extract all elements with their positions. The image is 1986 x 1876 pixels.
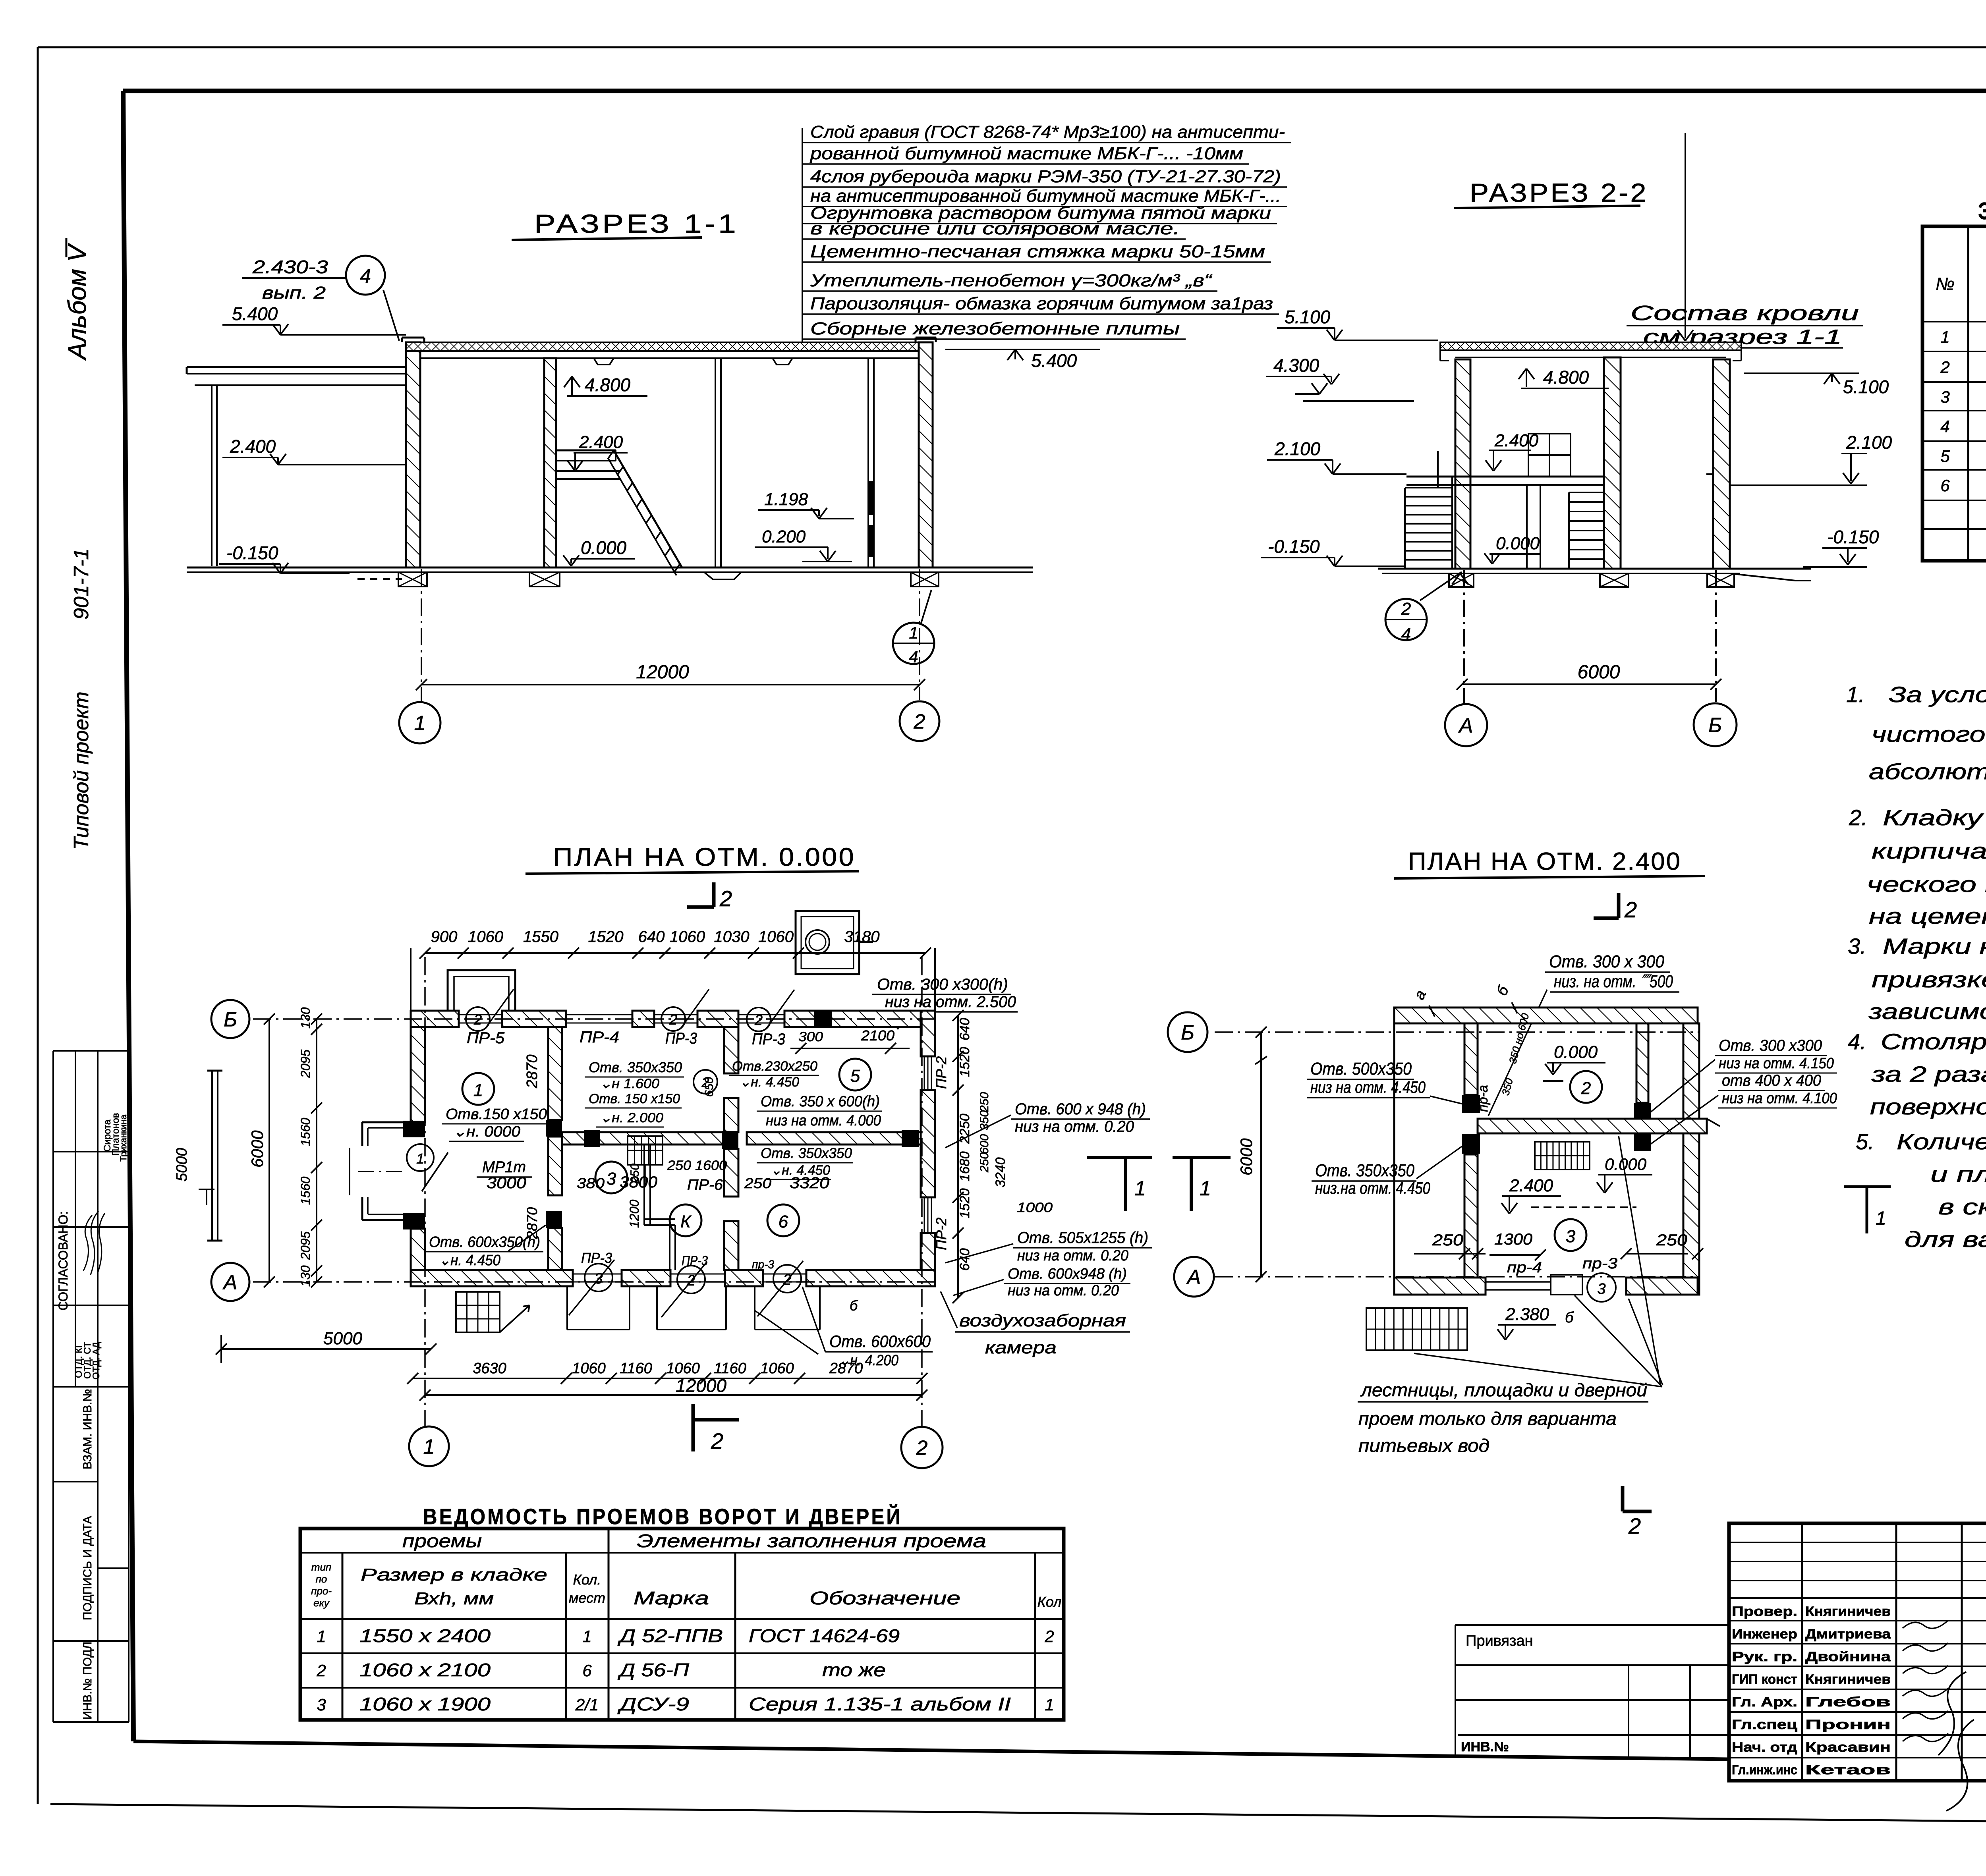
svg-text:4.800: 4.800 [1543, 367, 1589, 388]
svg-text:2: 2 [914, 710, 925, 733]
bottom dim chain 1 [413, 1378, 922, 1379]
left outdoor stair [1404, 488, 1406, 569]
canopy slab [187, 366, 406, 368]
svg-text:Типовой проект: Типовой проект [70, 691, 93, 850]
plan 0.000 section cut 2 bottom [692, 1404, 695, 1451]
vedomost grid [300, 1529, 1064, 1720]
svg-text:4.: 4. [1848, 1029, 1866, 1054]
svg-text:1060 х 1900: 1060 х 1900 [359, 1694, 491, 1714]
svg-text:Кол: Кол [1037, 1594, 1062, 1610]
svg-text:2: 2 [1940, 358, 1949, 376]
left margin approval table [53, 1050, 129, 1052]
svg-text:⌄н. 2.000: ⌄н. 2.000 [600, 1110, 663, 1125]
svg-text:по: по [316, 1573, 327, 1585]
svg-text:6: 6 [582, 1661, 592, 1680]
svg-text:5.100: 5.100 [1843, 376, 1889, 397]
svg-text:1: 1 [416, 1150, 424, 1167]
svg-text:2: 2 [1401, 599, 1411, 619]
door stoops bottom [566, 1286, 568, 1330]
svg-text:МР1т: МР1т [482, 1158, 526, 1176]
roofing layers note leader [802, 128, 803, 342]
axis circle 1 section 1-1 [399, 702, 440, 743]
svg-text:вып. 2: вып. 2 [262, 283, 326, 303]
svg-text:4слоя рубероида марки РЭМ-350: 4слоя рубероида марки РЭМ-350 (ТУ-21-27.… [810, 167, 1281, 186]
svg-text:зависимости от района строите: зависимости от района строительства. [1868, 999, 1986, 1024]
svg-text:ПР-3: ПР-3 [665, 1030, 697, 1047]
svg-text:Утеплитель-пенобетон γ=300кг/м: Утеплитель-пенобетон γ=300кг/м³ „в“ [810, 271, 1213, 290]
svg-text:Княгиничев: Княгиничев [1805, 1672, 1891, 1687]
section 2-2 right wall [1713, 359, 1730, 569]
section 1-1 partition wall [715, 358, 716, 567]
svg-text:5000: 5000 [174, 1148, 190, 1181]
svg-text:6000: 6000 [248, 1130, 267, 1168]
cellar stair window [456, 1292, 500, 1332]
svg-text:К: К [680, 1212, 692, 1231]
svg-text:130: 130 [298, 1007, 313, 1029]
section 1-1 right wall [919, 342, 933, 567]
foundations section 2-2 [1449, 573, 1474, 587]
svg-text:для варианта сточных вод.: для варианта сточных вод. [1905, 1227, 1986, 1252]
external stair plan 2.400 [1366, 1308, 1467, 1350]
svg-text:1: 1 [1876, 1208, 1886, 1229]
svg-text:⌄н. 0000: ⌄н. 0000 [453, 1123, 520, 1140]
svg-text:ПР-3: ПР-3 [581, 1250, 612, 1266]
svg-text:2: 2 [916, 1437, 928, 1460]
svg-text:ГИП конст: ГИП конст [1732, 1672, 1797, 1687]
svg-text:Красавин: Красавин [1805, 1740, 1891, 1755]
svg-text:лестницы, площадки и дверной: лестницы, площадки и дверной [1360, 1380, 1647, 1400]
svg-text:2.100: 2.100 [1846, 432, 1892, 453]
svg-text:ПЛАН НА ОТМ. 2.400: ПЛАН НА ОТМ. 2.400 [1408, 848, 1681, 875]
plan 2.400 interior wall [1464, 1023, 1478, 1095]
svg-text:250: 250 [1656, 1231, 1687, 1249]
svg-text:4: 4 [909, 647, 918, 666]
svg-text:901-7-1: 901-7-1 [70, 548, 93, 620]
stair symbol room 3 [628, 1136, 663, 1165]
entrance porch [362, 1121, 411, 1123]
section marks 1-1 between plans [1087, 1156, 1152, 1159]
svg-text:Отв. 350x350: Отв. 350x350 [1315, 1161, 1414, 1180]
svg-text:Д 52-ППВ: Д 52-ППВ [617, 1625, 723, 1646]
svg-text:ПР-2: ПР-2 [933, 1056, 949, 1089]
svg-text:2.400: 2.400 [579, 432, 623, 452]
svg-text:1: 1 [1134, 1177, 1146, 1200]
svg-text:1560: 1560 [298, 1177, 313, 1205]
svg-text:4.800: 4.800 [585, 374, 631, 395]
svg-text:пр-4: пр-4 [1507, 1259, 1542, 1276]
section 1-1 left wall [406, 342, 420, 567]
svg-text:2.400: 2.400 [1509, 1176, 1553, 1195]
svg-text:2.: 2. [1849, 805, 1868, 830]
svg-text:Б: Б [1181, 1021, 1194, 1044]
svg-text:Глебов: Глебов [1805, 1695, 1891, 1710]
svg-text:2100: 2100 [861, 1027, 894, 1044]
svg-text:Цементно-песчаная стяжка марки: Цементно-песчаная стяжка марки 50-15мм [810, 242, 1265, 261]
svg-text:2.400: 2.400 [1494, 431, 1539, 450]
svg-text:1: 1 [1940, 328, 1949, 346]
svg-text:2.430-3: 2.430-3 [252, 257, 328, 277]
stair landing [556, 450, 616, 452]
svg-text:-0.150: -0.150 [226, 542, 278, 563]
detail circle 4 callout [346, 256, 385, 295]
svg-text:Пронин: Пронин [1805, 1717, 1891, 1732]
svg-text:ВЕДОМОСТЬ ПРОЕМОВ ВОРОТ И Д: ВЕДОМОСТЬ ПРОЕМОВ ВОРОТ И ДВЕРЕЙ [423, 1504, 902, 1529]
svg-text:1160: 1160 [714, 1360, 746, 1377]
svg-text:Нач. отд: Нач. отд [1732, 1740, 1797, 1755]
svg-text:1060: 1060 [670, 928, 705, 946]
svg-text:3: 3 [607, 1169, 616, 1189]
svg-text:Сборные железобетонные плиты: Сборные железобетонные плиты [810, 319, 1180, 338]
svg-text:ПОДПИСЬ И ДАТА: ПОДПИСЬ И ДАТА [81, 1516, 94, 1620]
section 2-2 middle wall [1604, 357, 1621, 569]
svg-text:1: 1 [423, 1436, 435, 1459]
svg-text:Размер в кладке: Размер в кладке [361, 1565, 547, 1585]
plan 2.400 top wall [1394, 1007, 1698, 1023]
svg-text:2: 2 [719, 886, 732, 911]
svg-text:Отв. 500x350: Отв. 500x350 [1310, 1059, 1412, 1079]
svg-text:1: 1 [1200, 1177, 1211, 1200]
circle 3 bottom plan 2.400 [1587, 1273, 1616, 1302]
svg-text:ОТД. АД: ОТД. АД [91, 1342, 102, 1380]
svg-text:2870: 2870 [524, 1054, 541, 1089]
svg-text:1.: 1. [1846, 682, 1865, 707]
svg-text:1160: 1160 [620, 1360, 652, 1377]
section 2-2 left wall [1455, 359, 1470, 569]
svg-text:250 1600: 250 1600 [667, 1158, 727, 1173]
svg-text:2.100: 2.100 [1274, 438, 1321, 459]
svg-text:Гл.инж.инс: Гл.инж.инс [1732, 1762, 1797, 1778]
svg-text:за 2 раза по предварительно ог: за 2 раза по предварительно огрунтованно… [1871, 1062, 1986, 1087]
svg-text:650: 650 [703, 1077, 716, 1097]
svg-text:кирпича глиняного обыкновенног: кирпича глиняного обыкновенного пласти- [1872, 838, 1986, 863]
svg-text:низ на отм. 0.20: низ на отм. 0.20 [1008, 1282, 1119, 1299]
svg-text:Отв. 300 x300: Отв. 300 x300 [1719, 1037, 1822, 1054]
svg-text:А: А [1186, 1266, 1201, 1289]
door opening bottom [1551, 1275, 1582, 1295]
svg-text:3: 3 [1940, 388, 1949, 406]
svg-text:250: 250 [1432, 1231, 1463, 1249]
svg-text:Пароизоляция- обмазка горячим: Пароизоляция- обмазка горячим битумом за… [810, 294, 1273, 313]
plan 0.000 top wall [411, 1011, 459, 1027]
svg-text:4: 4 [1940, 417, 1949, 436]
svg-text:1060 х 2100: 1060 х 2100 [359, 1660, 491, 1680]
plan 2.400 section cut 2 bottom [1621, 1486, 1625, 1511]
svg-text:-0.150: -0.150 [1268, 536, 1320, 557]
svg-text:2: 2 [316, 1661, 326, 1680]
vent box [796, 911, 859, 974]
pr-a label [1476, 1085, 1491, 1112]
svg-text:Отв. 350x350: Отв. 350x350 [589, 1059, 682, 1075]
svg-text:1060: 1060 [758, 928, 794, 946]
svg-text:1.198: 1.198 [764, 490, 808, 509]
svg-text:⌄н. 4.450: ⌄н. 4.450 [740, 1075, 799, 1090]
plan 0.000 mid wall [562, 1132, 723, 1145]
svg-text:низ на отм. 4.000: низ на отм. 4.000 [766, 1112, 881, 1129]
svg-text:6000: 6000 [1578, 662, 1620, 683]
axis 1 plan 0.000 [424, 957, 426, 1426]
svg-text:ИНВ.№: ИНВ.№ [1461, 1739, 1509, 1754]
svg-text:3: 3 [1566, 1227, 1576, 1246]
svg-text:Д 56-П: Д 56-П [617, 1660, 690, 1680]
svg-text:1: 1 [317, 1627, 326, 1646]
svg-text:1060: 1060 [666, 1360, 700, 1377]
privyazan block [1455, 1624, 1729, 1626]
svg-text:РАЗРЕЗ 2-2: РАЗРЕЗ 2-2 [1470, 178, 1648, 207]
svg-text:пр-а: пр-а [1476, 1085, 1491, 1112]
svg-text:-0.150: -0.150 [1827, 527, 1879, 547]
svg-text:900: 900 [431, 928, 458, 946]
axis circle A section 2-2 [1445, 704, 1487, 746]
dim 6000 plan 2.400 [1260, 1032, 1262, 1277]
plan 2.400 bottom wall [1394, 1278, 1486, 1295]
svg-text:2870: 2870 [524, 1207, 540, 1239]
svg-text:ческого прессования марки 100: ческого прессования марки 100 (гост 530-… [1867, 872, 1986, 897]
svg-text:ПР-6: ПР-6 [687, 1177, 723, 1193]
svg-text:1560: 1560 [298, 1118, 313, 1146]
svg-text:Отв. 350x350: Отв. 350x350 [761, 1145, 852, 1161]
room circle 6 [767, 1204, 799, 1236]
svg-text:250: 250 [978, 1092, 991, 1112]
svg-text:1060: 1060 [468, 928, 503, 946]
svg-text:№: № [1936, 274, 1955, 294]
svg-text:За условную отметку 0.000 прин: За условную отметку 0.000 принята отметк… [1889, 682, 1986, 707]
svg-text:Отв. 150 x150: Отв. 150 x150 [589, 1091, 680, 1106]
svg-text:в скобках (см.листы АР-1,2) д: в скобках (см.листы АР-1,2) даны [1938, 1194, 1986, 1219]
svg-text:1: 1 [582, 1627, 591, 1646]
svg-text:1520: 1520 [588, 928, 624, 946]
section 1-1 roof slab [406, 342, 933, 351]
svg-text:2250: 2250 [957, 1114, 972, 1144]
svg-text:5: 5 [1940, 447, 1950, 465]
foundations [398, 572, 427, 587]
dim 650 center [703, 1077, 716, 1097]
axis B plan 0.000 [253, 1018, 935, 1020]
small dims at wall [1507, 1012, 1532, 1065]
explication table grid [1922, 226, 1986, 561]
svg-text:2.380: 2.380 [1505, 1305, 1549, 1324]
approval names [102, 1119, 113, 1152]
svg-text:поверхности .: поверхности . [1870, 1094, 1986, 1119]
svg-text:0.000: 0.000 [1554, 1042, 1598, 1062]
plan 0.000 interior wall 1 [548, 1027, 562, 1120]
stair flight [614, 450, 682, 567]
svg-text:низ на отм. 0.20: низ на отм. 0.20 [1017, 1247, 1128, 1264]
svg-text:350: 350 [978, 1110, 991, 1130]
svg-text:на цементном растворе марки 2: на цементном растворе марки 25. [1869, 903, 1986, 928]
left elevation bar plan 0.000 [211, 1071, 213, 1241]
detail circle 2/4 callout [1385, 599, 1427, 640]
svg-text:2: 2 [711, 1428, 723, 1453]
svg-text:тип: тип [311, 1561, 331, 1573]
svg-text:1: 1 [909, 623, 918, 642]
svg-text:0.000: 0.000 [581, 537, 627, 558]
svg-text:2: 2 [1044, 1627, 1054, 1646]
svg-text:5000: 5000 [323, 1329, 362, 1348]
svg-text:низ на отм. 4.450: низ на отм. 4.450 [1310, 1078, 1426, 1096]
svg-text:5: 5 [850, 1066, 860, 1086]
room circle 5 [839, 1059, 871, 1090]
svg-text:2095: 2095 [298, 1050, 313, 1078]
svg-text:Привязан: Привязан [1466, 1633, 1533, 1649]
axis A plan 2.400 [1215, 1276, 1700, 1278]
svg-text:отв 400 x 400: отв 400 x 400 [1722, 1072, 1821, 1089]
svg-text:Обозначение: Обозначение [809, 1588, 960, 1608]
svg-text:Провер.: Провер. [1732, 1604, 1797, 1619]
axis circle B section 2-2 [1694, 703, 1737, 746]
duct wall [867, 358, 869, 567]
room circle K [670, 1204, 701, 1236]
plan 0.000 left wall [411, 1027, 425, 1122]
svg-text:воздухозаборная: воздухозаборная [959, 1311, 1126, 1330]
entrance door leaf [422, 1152, 448, 1191]
ground line section 1-1 [187, 567, 1033, 569]
door frame section 2-2 [1526, 485, 1528, 569]
svg-text:640: 640 [957, 1018, 972, 1040]
svg-text:и площади помещений указанной: и площади помещений указанной [1930, 1162, 1986, 1187]
right inner dim chain [957, 1015, 959, 1298]
svg-text:1550 х 2400: 1550 х 2400 [359, 1625, 491, 1646]
svg-text:Отв. 600x600: Отв. 600x600 [829, 1332, 931, 1351]
right side PR-2 labels [933, 1056, 949, 1089]
svg-text:1200: 1200 [627, 1200, 641, 1228]
approval departments [73, 1343, 84, 1378]
room circle 3 plan 2.400 [1555, 1219, 1586, 1251]
axis 2 plan 0.000 [921, 957, 923, 1426]
svg-text:6: 6 [1940, 476, 1950, 495]
sheet inner frame [123, 89, 1986, 93]
plan 0.000 interior wall 2 [724, 1027, 738, 1073]
interior stair wall [544, 358, 556, 567]
svg-text:Триханкина: Триханкина [118, 1114, 128, 1162]
svg-text:250: 250 [744, 1175, 771, 1191]
svg-text:1550: 1550 [523, 928, 558, 946]
svg-text:3630: 3630 [473, 1360, 506, 1377]
plan 2.400 far right wall [1683, 1023, 1699, 1295]
svg-text:проем только для варианта: проем только для варианта [1358, 1408, 1617, 1429]
svg-text:3: 3 [317, 1695, 326, 1714]
project label 901-7-1 [70, 548, 93, 620]
plan 2.400 right wall upper [1636, 1023, 1648, 1103]
svg-text:Б: Б [1708, 714, 1722, 737]
svg-text:⌄н 1.600: ⌄н 1.600 [600, 1076, 659, 1091]
svg-text:3.: 3. [1848, 934, 1866, 959]
svg-text:5.400: 5.400 [1031, 350, 1077, 371]
note 5 symbol [1844, 1185, 1891, 1188]
svg-text:низ на отм. 2.500: низ на отм. 2.500 [885, 993, 1016, 1011]
mid floor slab [1406, 476, 1604, 478]
svg-text:Слой гравия (ГОСТ 8268-74* Мр3: Слой гравия (ГОСТ 8268-74* Мр3≥100) на а… [810, 122, 1285, 142]
svg-text:еку: еку [313, 1597, 330, 1609]
svg-text:питьевых вод: питьевых вод [1358, 1435, 1489, 1456]
axis B plan 2.400 [1215, 1031, 1700, 1033]
svg-text:3320: 3320 [790, 1174, 829, 1192]
svg-text:12000: 12000 [676, 1375, 726, 1396]
svg-text:мест: мест [569, 1590, 605, 1606]
svg-text:Княгиничев: Княгиничев [1805, 1604, 1891, 1619]
inv podl label [81, 1642, 94, 1720]
svg-text:Гл.спец: Гл.спец [1732, 1717, 1797, 1732]
svg-text:300: 300 [798, 1029, 823, 1044]
svg-text:привязке проекта по табл.3, С: привязке проекта по табл.3, СНиП II-26-7… [1872, 967, 1986, 992]
svg-text:3180: 3180 [844, 928, 880, 946]
svg-text:6: 6 [779, 1212, 788, 1231]
svg-text:Кол.: Кол. [573, 1571, 601, 1588]
bottom dim 12000 [425, 1394, 922, 1396]
svg-text:3: 3 [1597, 1281, 1605, 1297]
svg-text:1300: 1300 [1494, 1231, 1532, 1248]
stair plan 2.400 [1535, 1142, 1590, 1170]
dim 2870 room1 [524, 1054, 541, 1089]
svg-text:3240: 3240 [993, 1157, 1008, 1187]
svg-text:Серия 1.135-1 альбом II: Серия 1.135-1 альбом II [749, 1694, 1011, 1714]
svg-text:4: 4 [1401, 625, 1411, 644]
svg-text:Дмитриева: Дмитриева [1805, 1627, 1891, 1642]
level 4.800 section 2-2 [1526, 369, 1527, 387]
svg-text:2: 2 [1581, 1079, 1591, 1098]
svg-text:5.400: 5.400 [232, 303, 278, 324]
svg-text:про-: про- [311, 1585, 332, 1597]
svg-text:Отв.230x250: Отв.230x250 [732, 1059, 817, 1074]
svg-text:чистого пола I этажа, что соот: чистого пола I этажа, что соответствует [1872, 722, 1986, 747]
lintel circles top wall [466, 1007, 490, 1031]
svg-text:250: 250 [978, 1152, 991, 1173]
svg-text:Кетаов: Кетаов [1805, 1762, 1891, 1778]
svg-text:Гл. Арх.: Гл. Арх. [1732, 1695, 1797, 1710]
svg-text:ГОСТ 14624-69: ГОСТ 14624-69 [749, 1625, 900, 1646]
svg-text:б: б [1565, 1309, 1574, 1326]
svg-text:низ на отм. 4.150: низ на отм. 4.150 [1719, 1055, 1834, 1072]
svg-text:низ.на отм. 4.450: низ.на отм. 4.450 [1315, 1179, 1431, 1197]
svg-text:ПР-3: ПР-3 [682, 1253, 708, 1268]
svg-text:рованной битумной мастике МБК-: рованной битумной мастике МБК-Г-... -10м… [809, 144, 1243, 163]
room circle 2 plan 2.400 [1570, 1071, 1602, 1103]
svg-text:2095: 2095 [298, 1231, 313, 1260]
plan 0.000 partition [643, 1145, 645, 1225]
svg-text:пр-3: пр-3 [1582, 1255, 1617, 1272]
svg-text:Состав кровли: Состав кровли [1631, 302, 1859, 325]
svg-text:⌄н. 4.450: ⌄н. 4.450 [439, 1252, 500, 1269]
svg-text:ПР-5: ПР-5 [467, 1029, 505, 1047]
entrance axis circle 1 [407, 1144, 434, 1171]
svg-text:1: 1 [1045, 1695, 1054, 1714]
svg-text:1680: 1680 [957, 1151, 972, 1181]
plan 2.400 section cut 2 top [1617, 893, 1621, 918]
roof rib marks [594, 358, 614, 365]
level 5.400 right [1007, 349, 1015, 360]
svg-text:ПР-2: ПР-2 [933, 1218, 949, 1250]
svg-text:1060: 1060 [760, 1360, 794, 1377]
svg-text:ЭКСПЛИКАЦИЯ ПОМЕЩЕНИЙ: ЭКСПЛИКАЦИЯ ПОМЕЩЕНИЙ [1978, 198, 1986, 224]
plan 0.000 top bump [448, 970, 515, 1011]
svg-text:низ на отм. 0.20: низ на отм. 0.20 [1015, 1118, 1134, 1135]
bottom door circles [585, 1264, 612, 1291]
svg-text:1000: 1000 [1017, 1200, 1053, 1215]
dim 6000 left [269, 1019, 270, 1282]
svg-text:Столярные изделия окрасить мас: Столярные изделия окрасить масляной крас… [1881, 1029, 1986, 1054]
dim 5000 bottom left [221, 1348, 431, 1350]
level marks right of section 2-2 [1744, 372, 1859, 374]
svg-text:камера: камера [985, 1338, 1057, 1357]
svg-text:то же: то же [822, 1660, 886, 1680]
svg-text:640: 640 [638, 928, 665, 946]
svg-text:РАЗРЕЗ 1-1: РАЗРЕЗ 1-1 [534, 209, 739, 238]
dim 2870 bottom room [524, 1207, 540, 1239]
svg-text:ПР-4: ПР-4 [580, 1029, 619, 1046]
title block signatures [1903, 1620, 1948, 1628]
vzam inv label [81, 1389, 94, 1469]
title block outer [1729, 1523, 1986, 1781]
project label [70, 691, 93, 850]
